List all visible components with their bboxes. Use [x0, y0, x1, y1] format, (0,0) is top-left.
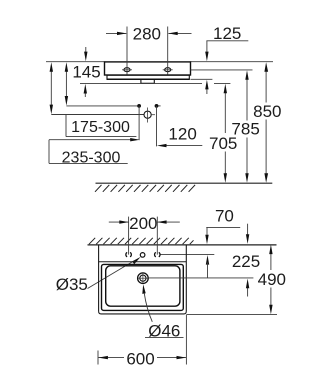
svg-text:120: 120: [168, 125, 196, 144]
dimension 705: [224, 91, 226, 133]
node dot right: [155, 104, 159, 108]
drain circle (front view): [144, 111, 151, 118]
svg-text:600: 600: [126, 350, 154, 369]
wire: hole center verticals: [138, 106, 140, 140]
svg-text:Ø35: Ø35: [56, 275, 88, 294]
wall line (plan): [88, 244, 277, 246]
svg-text:200: 200: [129, 214, 157, 233]
svg-text:145: 145: [72, 63, 100, 82]
dimension 280: [106, 32, 126, 34]
wall hatching: [89, 238, 194, 244]
tap hole dashed circle left: [126, 252, 127, 256]
tap hole dashed circle right: [155, 252, 156, 256]
wire: top level line (850 level) left extension: [46, 61, 105, 63]
basin rim lip rectangle: [107, 75, 189, 79]
dimension 600: [97, 351, 99, 365]
svg-text:235-300: 235-300: [62, 149, 121, 166]
drain tab under basin: [141, 79, 154, 83]
dimension 225 lower arrow: [247, 287, 249, 297]
svg-text:280: 280: [133, 24, 161, 43]
basin body rectangle (front view): [105, 62, 191, 75]
dimension 70 lower arrow: [206, 255, 209, 265]
svg-text:175-300: 175-300: [71, 119, 130, 136]
extension line of hole left: [126, 27, 128, 75]
node dot left: [137, 104, 141, 108]
tap hole solid circle (O35): [140, 253, 145, 258]
wire: circle level line (175-300 top): [51, 114, 144, 116]
wire: 705 level line: [80, 82, 202, 84]
dimension 490: [270, 251, 272, 270]
svg-text:225: 225: [232, 252, 260, 271]
dimension 175-300 vertical line: [65, 70, 67, 98]
basin outer rect (plan): [98, 245, 100, 312]
dimension 785: [246, 78, 248, 121]
svg-text:490: 490: [258, 270, 286, 289]
basin rear ledge line: [99, 261, 187, 263]
wire: top level line right extension to 850 dim: [191, 61, 274, 63]
floor hatching: [95, 185, 195, 192]
dimension 120: [167, 145, 203, 147]
svg-text:70: 70: [215, 207, 234, 226]
dimension 235-300 vertical line: [50, 70, 52, 106]
label 175-300 bracket: [65, 115, 67, 137]
dimension 225 upper arrow: [247, 224, 249, 237]
hole ellipse right (tap hole, front view): [165, 68, 171, 72]
basin bowl rounded rect: [106, 266, 180, 306]
basin rim rounded rect: [102, 264, 184, 310]
svg-text:125: 125: [213, 24, 241, 43]
label O46 with leader: [144, 294, 152, 322]
svg-text:850: 850: [253, 102, 281, 121]
svg-text:785: 785: [231, 119, 259, 138]
wire: holes level line with dot terminators: [66, 105, 139, 107]
wire: front edge extension to right (490 landing): [186, 313, 277, 315]
125 lower reference: rim bottom extension: [191, 78, 213, 80]
dimension 850: [265, 70, 267, 103]
floor line: [96, 182, 273, 184]
faucet hole double circle (O46): [138, 273, 149, 284]
wire: 785 level line: [191, 69, 253, 71]
dimension 70: [206, 226, 240, 228]
wire: faucet center line to right (225 landing): [148, 277, 253, 279]
hole ellipse left (tap hole, front view): [124, 68, 130, 72]
wire: tap row extension line: [160, 253, 214, 255]
dimension 145: [85, 47, 87, 53]
label 235-300 bracket: [49, 139, 132, 141]
extension line of hole right: [167, 27, 169, 75]
dimension 125: [206, 40, 248, 42]
dimension 200: [128, 217, 130, 255]
